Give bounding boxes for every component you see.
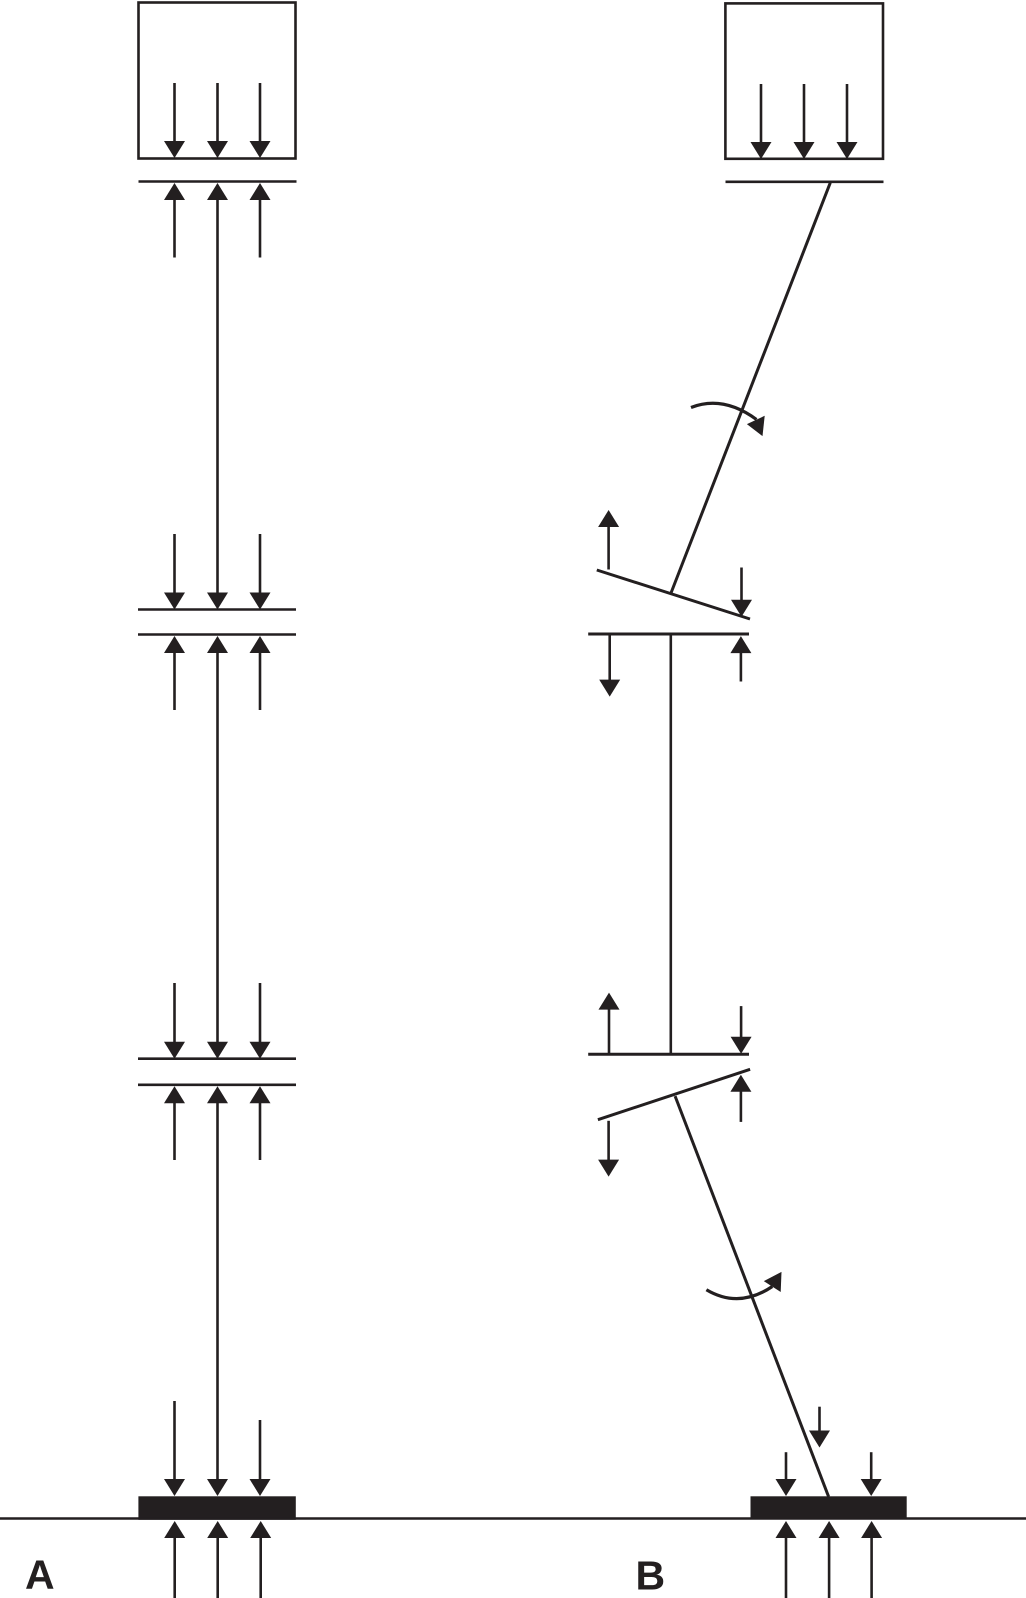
- disc top plate A joint2: [138, 608, 296, 611]
- compression arrow A base right (down): [250, 1420, 271, 1496]
- compression arrow B upper-right (down): [731, 568, 752, 617]
- reaction arrow B mid-left (down): [599, 634, 620, 697]
- reaction arrow A joint2 right (up): [250, 636, 271, 710]
- ground line: [0, 1517, 1026, 1519]
- reaction arrow A joint3 right (up): [250, 1086, 271, 1160]
- interface line A1: [139, 180, 297, 183]
- compression arrow A base left (down): [164, 1401, 185, 1496]
- reaction arrow A1 right (up): [250, 183, 271, 258]
- compression arrow B base left (down): [776, 1452, 797, 1496]
- compression arrow A joint2 right (down): [250, 534, 271, 610]
- disc bottom plate A joint2: [138, 633, 296, 636]
- tilted plate B lower: [598, 1069, 750, 1119]
- interface line B1: [726, 181, 884, 184]
- base block B: [751, 1496, 907, 1519]
- disc bottom plate A joint3: [138, 1084, 296, 1087]
- ground reaction arrow A left (up): [164, 1521, 185, 1598]
- horizontal plate B lower: [588, 1053, 749, 1056]
- axial force arrow A center (double headed, joint3 to base): [207, 1086, 228, 1496]
- axial force arrow A center (double headed, joint2 to joint3): [207, 636, 228, 1059]
- ground reaction arrow B left (up): [776, 1521, 797, 1598]
- svg-text:A: A: [25, 1552, 55, 1598]
- load box A: [139, 3, 296, 159]
- reaction arrow A1 left (up): [164, 183, 185, 258]
- load arrow A left (down): [164, 83, 185, 158]
- lower strut B (tilted segment): [675, 1096, 829, 1497]
- tension arrow B lower-left (up): [599, 993, 620, 1054]
- eccentric load arrow B (short, down): [809, 1407, 830, 1448]
- horizontal plate B middle: [588, 633, 749, 636]
- upper strut B (tilted segment): [671, 183, 830, 593]
- load arrow B right (down): [837, 84, 858, 159]
- base block A: [138, 1496, 295, 1520]
- compression arrow B lower-right (down): [731, 1006, 752, 1054]
- tension arrow B upper-left (up): [598, 510, 619, 570]
- svg-text:B: B: [636, 1553, 666, 1598]
- load arrow B center (down): [794, 84, 815, 159]
- ground reaction arrow B right (up): [861, 1521, 882, 1598]
- axial force arrow A center (double headed, interface1 to joint2): [207, 183, 228, 610]
- compression arrow A joint3 left (down): [164, 983, 185, 1059]
- ground reaction arrow B center (up): [819, 1521, 840, 1598]
- compression arrow B base right (down): [861, 1452, 882, 1496]
- tilted plate B upper: [597, 570, 750, 619]
- reaction arrow B lower-right (up): [730, 1075, 751, 1122]
- rotation arrow upper (clockwise arc): [691, 403, 765, 436]
- reaction arrow A joint3 left (up): [164, 1086, 185, 1160]
- ground reaction arrow A right (up): [250, 1521, 271, 1598]
- compression arrow A joint2 left (down): [164, 534, 185, 610]
- load arrow A center (down): [207, 83, 228, 158]
- rotation arrow lower (arc): [706, 1272, 781, 1299]
- load arrow B left (down): [751, 84, 772, 159]
- reaction arrow A joint2 left (up): [164, 636, 185, 710]
- compression arrow A joint3 right (down): [250, 983, 271, 1059]
- disc top plate A joint3: [138, 1057, 296, 1060]
- load box B: [725, 3, 883, 158]
- ground reaction arrow A center (up): [207, 1521, 228, 1598]
- reaction arrow B lower-left (down): [598, 1121, 619, 1177]
- axial line B (middle segment): [669, 634, 672, 1054]
- load arrow A right (down): [250, 83, 271, 158]
- reaction arrow B mid-right (up): [730, 636, 751, 681]
